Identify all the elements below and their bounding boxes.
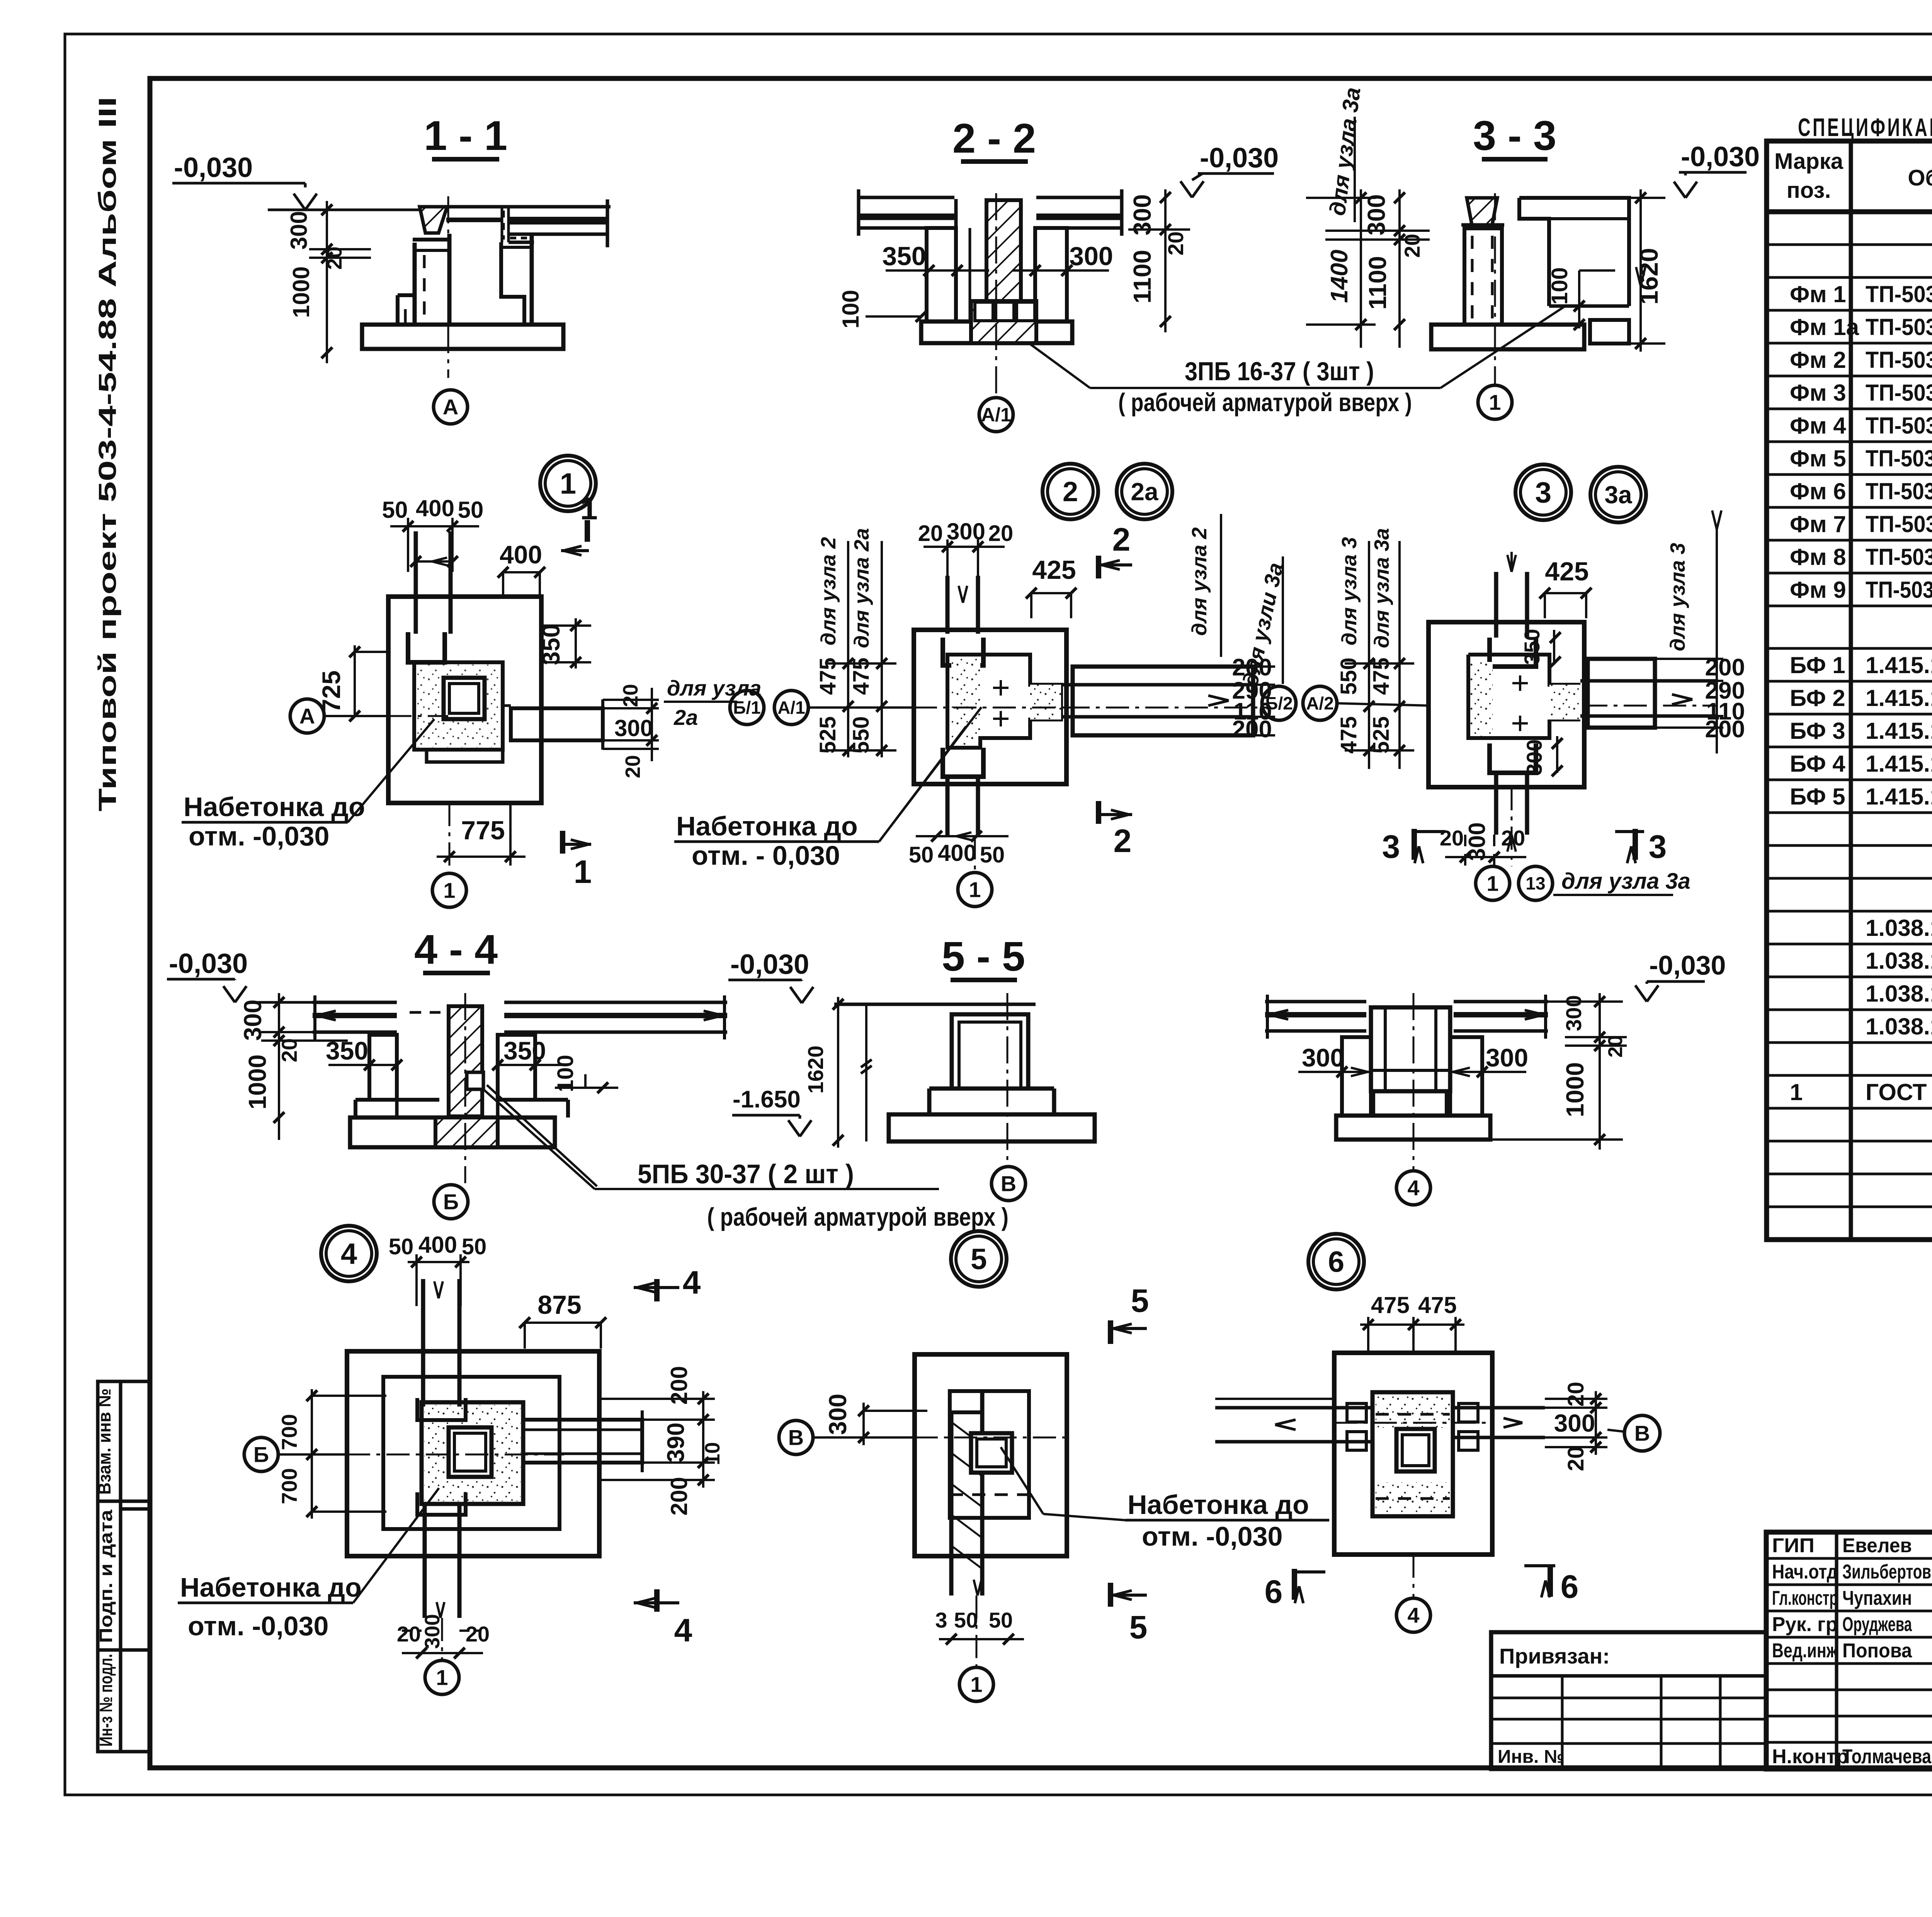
node 4 socket xyxy=(422,1402,523,1504)
node 6 section marks xyxy=(1265,1566,1579,1610)
svg-text:Обозначение: Обозначение xyxy=(1908,165,1932,191)
node 2 bottom dims 50 400 50 xyxy=(909,831,1009,867)
svg-text:А/2: А/2 xyxy=(1306,693,1334,713)
svg-text:100: 100 xyxy=(553,1055,578,1092)
section 3-3 dims left xyxy=(1306,189,1430,348)
svg-text:50: 50 xyxy=(980,842,1005,867)
svg-text:700: 700 xyxy=(277,1468,301,1504)
svg-text:-1.650: -1.650 xyxy=(733,1086,801,1113)
svg-text:1100: 1100 xyxy=(1128,250,1156,304)
section 3-3 right lower block xyxy=(1590,320,1629,344)
node 5 section mark bottom xyxy=(1111,1583,1147,1645)
svg-text:3 - 3: 3 - 3 xyxy=(1473,112,1556,159)
section 6-6 dims 300 300 xyxy=(1298,1043,1528,1077)
section 5-5 axis circle V xyxy=(992,993,1026,1201)
svg-text:отм. -0,030: отм. -0,030 xyxy=(189,821,329,851)
node 5 column strip xyxy=(951,1391,982,1596)
section 1-1 floor slab xyxy=(446,199,611,247)
svg-text:Фм 1а: Фм 1а xyxy=(1790,314,1859,340)
svg-text:1.415.1 - 2.1 - 2 - 49: 1.415.1 - 2.1 - 2 - 49 xyxy=(1866,685,1932,711)
svg-text:1 - 1: 1 - 1 xyxy=(424,112,507,159)
node 4 dims 700 700 xyxy=(277,1389,386,1519)
section 4-4 dims 350 350 100 xyxy=(326,1036,618,1093)
node 1 bottom pad xyxy=(427,750,503,762)
node 2 bottom strip xyxy=(943,748,983,836)
node 6 axis circle V xyxy=(1334,1415,1660,1451)
svg-text:Рук. гр: Рук. гр xyxy=(1772,1613,1838,1636)
node 3 central shapes xyxy=(1468,655,1580,738)
svg-text:БФ 5: БФ 5 xyxy=(1790,784,1845,810)
svg-text:300: 300 xyxy=(239,1000,267,1041)
svg-text:475: 475 xyxy=(1336,716,1361,754)
node 3 axis circles xyxy=(1262,686,1429,720)
svg-text:3: 3 xyxy=(1535,476,1551,509)
svg-text:В: В xyxy=(1001,1172,1016,1196)
svg-text:200: 200 xyxy=(1232,716,1272,743)
section 6-6 side piers xyxy=(1342,1037,1482,1116)
svg-text:ТП-503-4- 54.88 - КЖ 29: ТП-503-4- 54.88 - КЖ 29 xyxy=(1866,478,1932,504)
node 1 column strips xyxy=(416,531,451,634)
node 2 section mark top xyxy=(1099,521,1132,578)
svg-text:Н.контр: Н.контр xyxy=(1772,1745,1849,1768)
section 4-4 axis circle B xyxy=(434,993,468,1219)
section 2-2 left pier xyxy=(927,228,956,321)
left margin stamp boxes xyxy=(98,1381,151,1752)
node 4 outer square xyxy=(347,1351,599,1556)
node 3 dim 425 xyxy=(1539,557,1592,618)
svg-text:для узла: для узла xyxy=(667,676,761,700)
svg-text:для узла 3а: для узла 3а xyxy=(1370,528,1393,648)
svg-text:20: 20 xyxy=(1163,231,1188,255)
section 2-2 view xyxy=(952,115,1279,197)
section 5-5 label xyxy=(942,933,1025,980)
svg-text:Марка: Марка xyxy=(1774,149,1844,174)
svg-text:425: 425 xyxy=(1545,557,1588,586)
svg-text:для узла 2: для узла 2 xyxy=(817,537,840,646)
node 2 central shape xyxy=(947,655,1061,748)
svg-text:1100: 1100 xyxy=(1364,256,1391,310)
section 4-4 base slab xyxy=(350,1118,555,1147)
node 6 nabetonka bands xyxy=(1376,1395,1450,1513)
svg-text:300: 300 xyxy=(421,1614,444,1649)
node 2 beam right xyxy=(914,667,1271,735)
node 1 plan xyxy=(540,456,596,511)
svg-text:50: 50 xyxy=(382,497,408,523)
node 1 beam right xyxy=(503,699,603,750)
svg-text:Попова: Попова xyxy=(1842,1640,1912,1662)
svg-text:400: 400 xyxy=(938,840,976,866)
section 5-5 foundation profile xyxy=(889,1014,1095,1141)
svg-text:100: 100 xyxy=(838,290,864,328)
svg-text:А/1: А/1 xyxy=(777,697,805,718)
svg-text:1: 1 xyxy=(560,468,576,500)
node 6 beams xyxy=(1215,1399,1545,1442)
node 1 outer square xyxy=(388,597,541,803)
section 4-4 note 5PB30-37 xyxy=(638,1159,1009,1231)
svg-text:Привязан:: Привязан: xyxy=(1499,1644,1610,1668)
svg-text:3а: 3а xyxy=(1604,481,1632,509)
svg-text:ТП-503-4-54.88 - КЖ 24: ТП-503-4-54.88 - КЖ 24 xyxy=(1866,281,1932,307)
svg-text:2: 2 xyxy=(1112,521,1131,558)
section 5-5 elevation -1.650 xyxy=(732,1086,811,1136)
svg-text:ГОСТ 24379.1 - 80: ГОСТ 24379.1 - 80 xyxy=(1866,1079,1932,1105)
svg-text:1400: 1400 xyxy=(1326,250,1353,303)
node 5 outer rect xyxy=(915,1354,1067,1556)
svg-text:300: 300 xyxy=(947,519,985,544)
node 4 axis circle 1 xyxy=(425,1618,459,1694)
svg-text:1.415.1 - 2.1 - 1 - 06: 1.415.1 - 2.1 - 1 - 06 xyxy=(1866,751,1932,777)
node 3 column strips xyxy=(1490,552,1536,667)
section 3-3 axis circle 1 xyxy=(1440,193,1566,419)
node 6 outer rect xyxy=(1334,1353,1492,1555)
svg-text:Б/1: Б/1 xyxy=(733,697,760,718)
svg-text:20: 20 xyxy=(277,1038,301,1062)
svg-text:50: 50 xyxy=(954,1608,978,1632)
svg-text:300: 300 xyxy=(286,211,312,250)
node 3 dims 350 300 xyxy=(1520,629,1563,776)
svg-text:350: 350 xyxy=(537,624,565,665)
svg-text:20: 20 xyxy=(1604,1035,1627,1058)
node circle 6 xyxy=(1308,1234,1364,1289)
svg-text:1: 1 xyxy=(1486,871,1498,896)
svg-text:Набетонка до: Набетонка до xyxy=(184,792,365,822)
svg-text:1.415.1 - 2.1 - 2 - 55: 1.415.1 - 2.1 - 2 - 55 xyxy=(1866,652,1932,678)
svg-text:50: 50 xyxy=(389,1234,414,1259)
svg-text:1: 1 xyxy=(1489,390,1501,415)
node 5 column square xyxy=(971,1433,1012,1473)
node 3 circles xyxy=(1515,464,1646,522)
svg-text:отм. -0,030: отм. -0,030 xyxy=(188,1611,328,1641)
section 1-1 left pier xyxy=(398,234,451,325)
svg-text:1.038.1 - 1 вып. 1: 1.038.1 - 1 вып. 1 xyxy=(1866,948,1932,974)
node 6 top dims 475 475 xyxy=(1360,1292,1464,1353)
svg-text:Фм 2: Фм 2 xyxy=(1790,347,1846,373)
svg-text:350: 350 xyxy=(1520,629,1544,665)
svg-text:2: 2 xyxy=(1114,823,1132,859)
svg-text:1620: 1620 xyxy=(1634,248,1663,305)
node 1 axis A xyxy=(290,699,448,733)
node 1 socket xyxy=(408,632,503,750)
node 4 top dims 50 400 50 xyxy=(389,1232,487,1306)
svg-text:Ин-з № подл.: Ин-з № подл. xyxy=(96,1654,116,1747)
node 4 right dims xyxy=(599,1366,724,1516)
privyazan block xyxy=(1491,1632,1766,1769)
svg-text:ТП-503-4-54.88 - КЖ 24: ТП-503-4-54.88 - КЖ 24 xyxy=(1866,314,1932,340)
section 2-2 dims xyxy=(838,189,1190,332)
svg-text:Евелев: Евелев xyxy=(1842,1534,1912,1557)
svg-text:725: 725 xyxy=(317,670,345,713)
section 4-4 piers xyxy=(355,1035,568,1118)
node 2 top dims 20 300 20 xyxy=(918,519,1014,603)
svg-text:1: 1 xyxy=(1790,1079,1803,1105)
svg-text:1.415.1 - 2.1 - 3 - 55: 1.415.1 - 2.1 - 3 - 55 xyxy=(1866,718,1932,744)
node 1 dim 400 xyxy=(498,540,545,595)
svg-text:400: 400 xyxy=(416,495,454,521)
node 1 dlya uzla 2a note xyxy=(664,676,761,730)
svg-text:3: 3 xyxy=(935,1608,947,1632)
node 2 nabetonka note xyxy=(674,707,981,871)
svg-text:для узла 2а: для узла 2а xyxy=(850,528,873,648)
node 6 right dims 20 300 20 xyxy=(1503,1382,1607,1471)
node 1 dim 350 xyxy=(537,618,591,668)
svg-text:поз.: поз. xyxy=(1787,178,1831,203)
svg-text:300: 300 xyxy=(1486,1043,1528,1072)
section 3-3 base slab xyxy=(1431,325,1584,349)
section 3-3 dlya uzla 3a label xyxy=(1325,86,1365,222)
svg-text:20: 20 xyxy=(1563,1382,1588,1407)
svg-text:1: 1 xyxy=(436,1665,448,1690)
svg-text:Подп. и дата: Подп. и дата xyxy=(96,1510,116,1643)
svg-text:ТП-503-4-54.88 - КЖ 30: ТП-503-4-54.88 - КЖ 30 xyxy=(1866,511,1932,537)
title block xyxy=(1766,1532,1932,1769)
svg-text:ТП-503-4-54.88 - КЖ 27: ТП-503-4-54.88 - КЖ 27 xyxy=(1866,413,1932,439)
section 6-6 axis circle 4 xyxy=(1396,993,1430,1205)
svg-text:( рабочей арматурой вверх ): ( рабочей арматурой вверх ) xyxy=(1118,388,1412,417)
svg-text:13: 13 xyxy=(1526,873,1545,893)
svg-text:А: А xyxy=(443,395,458,419)
svg-text:1.038.1 - 1 вып. 1: 1.038.1 - 1 вып. 1 xyxy=(1866,981,1932,1007)
section 2-2 stakan walls xyxy=(956,199,1035,321)
svg-text:20: 20 xyxy=(323,247,346,270)
svg-text:5ПБ 30-37 ( 2 шт ): 5ПБ 30-37 ( 2 шт ) xyxy=(638,1159,854,1189)
node 5 bottom dims 3 50 50 xyxy=(935,1580,1024,1645)
svg-text:350: 350 xyxy=(882,242,926,271)
svg-text:4 - 4: 4 - 4 xyxy=(414,926,498,973)
section 3-3 dim 100 xyxy=(1547,267,1615,330)
svg-text:Оруджева: Оруджева xyxy=(1842,1613,1912,1636)
svg-text:1: 1 xyxy=(969,878,981,902)
svg-text:Б: Б xyxy=(443,1190,459,1214)
node 2 dlya uzla 2 right xyxy=(1188,514,1221,657)
section 2-2 footing with lintels xyxy=(921,301,1072,343)
svg-text:525: 525 xyxy=(815,716,840,754)
node 1 column square xyxy=(444,678,485,719)
section 5-5 ground line xyxy=(834,1003,1036,1006)
node 6 axis circle 4 xyxy=(1396,1555,1430,1632)
svg-text:50: 50 xyxy=(909,842,934,867)
svg-text:1000: 1000 xyxy=(1561,1062,1589,1117)
section 1-1 view xyxy=(172,112,507,363)
section 6-6 elevation and right dims xyxy=(1490,950,1726,1150)
svg-text:Фм 4: Фм 4 xyxy=(1790,413,1846,439)
svg-text:1.038.1 - 1 вып. 1: 1.038.1 - 1 вып. 1 xyxy=(1866,1014,1932,1039)
node 3 left vertical dims xyxy=(1336,528,1414,769)
svg-text:Инв. №: Инв. № xyxy=(1498,1747,1565,1767)
svg-text:2а: 2а xyxy=(1131,478,1158,505)
svg-text:20: 20 xyxy=(466,1622,490,1646)
svg-text:4: 4 xyxy=(683,1264,701,1301)
svg-text:-0,030: -0,030 xyxy=(1649,950,1726,980)
svg-text:50: 50 xyxy=(989,1608,1013,1632)
svg-text:775: 775 xyxy=(461,816,505,845)
svg-text:БФ 4: БФ 4 xyxy=(1790,751,1845,777)
svg-text:1.415.1 - 2.1 - 1 - 04: 1.415.1 - 2.1 - 1 - 04 xyxy=(1866,784,1932,810)
svg-text:20: 20 xyxy=(1563,1446,1588,1471)
svg-text:А/1: А/1 xyxy=(981,404,1011,426)
svg-text:300: 300 xyxy=(1362,194,1390,236)
svg-text:Фм 6: Фм 6 xyxy=(1790,478,1846,504)
section 1-1 base slab xyxy=(362,325,563,349)
node 5 axis circle 1 xyxy=(959,1596,993,1701)
svg-text:ТП-503-4-54.88 - КЖ 26: ТП-503-4-54.88 - КЖ 26 xyxy=(1866,380,1932,406)
svg-text:ГИП: ГИП xyxy=(1772,1534,1815,1557)
node 5 dim 300 xyxy=(824,1394,927,1445)
svg-text:400: 400 xyxy=(500,540,542,569)
svg-text:50: 50 xyxy=(462,1234,487,1259)
svg-text:Б/2: Б/2 xyxy=(1265,693,1293,713)
svg-text:Фм 3: Фм 3 xyxy=(1790,380,1846,406)
node 2 column strip top xyxy=(943,576,983,665)
svg-text:2 - 2: 2 - 2 xyxy=(952,115,1036,162)
svg-text:В: В xyxy=(1634,1421,1650,1446)
node 5 section mark top xyxy=(1111,1283,1149,1344)
node 2 outer square xyxy=(914,630,1066,784)
svg-text:1000: 1000 xyxy=(288,266,314,318)
svg-text:20: 20 xyxy=(918,521,943,546)
svg-text:10: 10 xyxy=(701,1442,724,1465)
svg-text:Гл.констр: Гл.констр xyxy=(1772,1587,1838,1609)
section 2-2 axis A/1 xyxy=(979,193,1013,432)
svg-text:Типовой проект 503-4-54.88 А: Типовой проект 503-4-54.88 Альбом III xyxy=(94,97,121,811)
node 1 section mark top xyxy=(561,491,598,555)
svg-text:200: 200 xyxy=(666,1366,692,1405)
svg-text:20: 20 xyxy=(397,1622,421,1646)
svg-text:Б: Б xyxy=(253,1442,269,1467)
node 4 column strips xyxy=(417,1279,466,1618)
node 3 outer square xyxy=(1429,622,1584,787)
section 4-4 central hatched column xyxy=(449,1006,482,1116)
node 3 section marks 3 xyxy=(1382,828,1667,865)
svg-text:Чупахин: Чупахин xyxy=(1842,1587,1912,1609)
node 3 circles 1 and 13 xyxy=(1476,787,1690,900)
node 1 dim 725 xyxy=(317,645,390,721)
svg-text:6: 6 xyxy=(1265,1573,1283,1610)
svg-text:400: 400 xyxy=(418,1232,457,1258)
node 4 nabetonka square xyxy=(383,1377,560,1529)
node 5 dashed lines xyxy=(915,1437,1067,1518)
section 3-3 pilaster xyxy=(1461,225,1504,325)
svg-text:1000: 1000 xyxy=(243,1055,271,1109)
spec table header xyxy=(1774,149,1932,203)
svg-text:ТП-503-4-54.88 - КЖ 25: ТП-503-4-54.88 - КЖ 25 xyxy=(1866,347,1932,373)
section 2-2 central hatched column xyxy=(986,200,1021,301)
svg-text:-0,030: -0,030 xyxy=(730,949,809,980)
node 4 section mark bottom xyxy=(634,1589,692,1648)
node 1 bottom dim 775 xyxy=(437,803,526,866)
svg-text:ТП-503-4 - 54.88 - КЖ 32: ТП-503-4 - 54.88 - КЖ 32 xyxy=(1866,577,1932,603)
svg-text:1.038.1 - 1 вып. 1: 1.038.1 - 1 вып. 1 xyxy=(1866,915,1932,941)
node 3 bottom dims 20 300 20 xyxy=(1440,822,1526,866)
svg-text:Взам. инв №: Взам. инв № xyxy=(94,1388,114,1495)
svg-text:4: 4 xyxy=(1407,1603,1419,1628)
svg-text:Толмачева: Толмачева xyxy=(1842,1745,1932,1768)
svg-text:350: 350 xyxy=(326,1036,368,1065)
node 3 right dims xyxy=(1655,654,1745,743)
section 6-6 center pier xyxy=(1371,1007,1450,1116)
svg-text:для узла 3а: для узла 3а xyxy=(1561,869,1690,894)
svg-text:1620: 1620 xyxy=(803,1046,828,1094)
svg-text:2: 2 xyxy=(1063,476,1078,507)
node 1 nabetonka note xyxy=(182,719,434,851)
svg-text:20: 20 xyxy=(1400,234,1424,258)
svg-text:20: 20 xyxy=(619,684,642,707)
section 2-2 floor slabs xyxy=(859,189,1122,236)
node 2 dim 425 xyxy=(1026,555,1077,618)
svg-text:для узла 3: для узла 3 xyxy=(1338,537,1361,646)
svg-text:3: 3 xyxy=(1382,828,1400,865)
section 4-4 floor slabs xyxy=(313,995,727,1039)
svg-text:Фм 9: Фм 9 xyxy=(1790,577,1846,603)
svg-text:-0,030: -0,030 xyxy=(174,152,253,183)
svg-text:875: 875 xyxy=(537,1290,581,1320)
svg-text:Зильбертов: Зильбертов xyxy=(1842,1561,1931,1583)
node 4 column square xyxy=(449,1427,492,1477)
node 2 axis circles xyxy=(730,691,914,725)
svg-text:4: 4 xyxy=(341,1238,357,1271)
node 1 section mark bottom xyxy=(563,831,592,890)
node circles 2 and 2a xyxy=(1043,464,1172,519)
svg-text:5: 5 xyxy=(971,1243,987,1276)
svg-text:475: 475 xyxy=(1371,1292,1410,1318)
node 6 beam stubs xyxy=(1347,1403,1478,1450)
svg-text:3ПБ 16-37 ( 3шт ): 3ПБ 16-37 ( 3шт ) xyxy=(1185,357,1374,386)
section 1-1 right pier xyxy=(501,236,532,325)
section 6-6 floor slabs xyxy=(1265,995,1548,1039)
svg-text:4: 4 xyxy=(1407,1176,1419,1200)
svg-text:Фм 7: Фм 7 xyxy=(1790,511,1846,537)
svg-text:6: 6 xyxy=(1328,1246,1344,1279)
svg-text:20: 20 xyxy=(1501,826,1525,850)
node circle 5 xyxy=(951,1231,1007,1287)
svg-text:для узла 2: для узла 2 xyxy=(1188,527,1211,636)
section 4-4 lintel square xyxy=(467,1072,939,1189)
svg-text:Набетонка до: Набетонка до xyxy=(180,1572,362,1602)
svg-text:Набетонка до: Набетонка до xyxy=(676,811,858,841)
svg-text:200: 200 xyxy=(666,1477,692,1516)
svg-text:6: 6 xyxy=(1561,1568,1579,1605)
node circle 4 xyxy=(321,1226,377,1281)
section 2-2 lintel leader note xyxy=(1028,342,1440,417)
svg-text:для узла 3: для узла 3 xyxy=(1666,543,1689,651)
section 4-4 view xyxy=(167,926,498,1002)
svg-text:200: 200 xyxy=(1705,716,1745,743)
svg-text:700: 700 xyxy=(277,1414,301,1450)
svg-text:-0,030: -0,030 xyxy=(169,948,248,979)
svg-text:ТП-503-4- 54.88 - КЖ 31: ТП-503-4- 54.88 - КЖ 31 xyxy=(1866,544,1932,570)
svg-text:1: 1 xyxy=(574,854,592,890)
node 3 dlya uzla 3 right xyxy=(1666,510,1721,754)
node 2 plan left vertical dims xyxy=(815,528,896,757)
svg-text:390: 390 xyxy=(663,1422,689,1462)
node 2 section mark bottom xyxy=(1099,801,1132,859)
svg-text:-0,030: -0,030 xyxy=(1200,143,1279,173)
svg-text:300: 300 xyxy=(1561,995,1586,1031)
section 3-3 wall block xyxy=(1519,198,1629,306)
svg-text:Фм 8: Фм 8 xyxy=(1790,544,1846,570)
svg-text:Фм 5: Фм 5 xyxy=(1790,446,1846,471)
svg-text:425: 425 xyxy=(1032,555,1076,585)
node 6 column square xyxy=(1396,1429,1435,1471)
svg-text:Фм 1: Фм 1 xyxy=(1790,281,1846,307)
svg-text:4: 4 xyxy=(674,1612,692,1648)
spec table rows xyxy=(1790,248,1932,1237)
stamp box vertical labels xyxy=(94,1388,116,1747)
node 5 inner rect xyxy=(950,1391,1029,1518)
svg-text:-0,030: -0,030 xyxy=(1681,141,1760,172)
svg-text:300: 300 xyxy=(1069,242,1113,271)
svg-text:3: 3 xyxy=(1649,828,1667,865)
node 4 bottom dims 20 300 20 xyxy=(397,1602,490,1658)
